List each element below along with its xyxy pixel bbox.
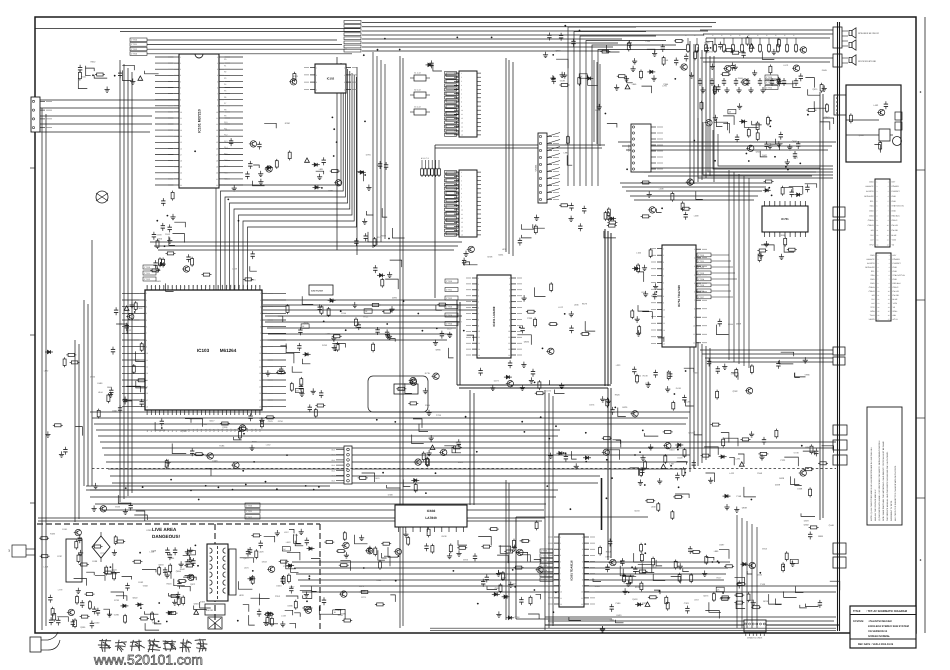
svg-text:(2) THE PARTS WITH MARK 4 OF S: (2) THE PARTS WITH MARK 4 OF SPECIFIED F… xyxy=(878,440,881,521)
svg-text:CT705: CT705 xyxy=(446,323,453,326)
svg-text:CRB B: CRB B xyxy=(869,286,876,289)
svg-text:WITH SAME PART NBR. THE IMPORT: WITH SAME PART NBR. THE IMPORTANT 4 AND … xyxy=(882,441,885,521)
svg-text:5: 5 xyxy=(461,88,462,91)
svg-text:D486: D486 xyxy=(97,382,103,385)
svg-text:V23: V23 xyxy=(242,285,245,288)
svg-text:R223: R223 xyxy=(167,582,173,585)
svg-text:2: 2 xyxy=(560,542,561,545)
svg-text:RED BLK: RED BLK xyxy=(893,282,902,285)
svg-text:3: 3 xyxy=(316,81,317,84)
svg-text:Q716: Q716 xyxy=(688,432,694,435)
svg-text:C550: C550 xyxy=(143,585,149,588)
svg-text:13: 13 xyxy=(216,129,218,132)
svg-text:R141: R141 xyxy=(642,291,648,294)
svg-text:TV-IN: TV-IN xyxy=(870,314,875,317)
svg-text:PW RD: PW RD xyxy=(892,229,899,232)
svg-text:C158: C158 xyxy=(736,495,742,498)
svg-text:Q855: Q855 xyxy=(740,51,746,54)
svg-text:CT702: CT702 xyxy=(131,48,138,51)
svg-text:SPILL: SPILL xyxy=(893,310,898,313)
svg-text:Q307: Q307 xyxy=(112,409,118,412)
svg-text:19: 19 xyxy=(216,166,218,169)
svg-text:6: 6 xyxy=(180,86,181,89)
svg-text:C799: C799 xyxy=(436,414,442,417)
svg-text:R185: R185 xyxy=(219,444,225,447)
svg-text:P8: P8 xyxy=(224,108,226,111)
svg-text:4: 4 xyxy=(509,295,510,298)
svg-text:CT703: CT703 xyxy=(131,52,138,55)
svg-text:GND: GND xyxy=(870,282,875,285)
svg-text:GND: GND xyxy=(870,254,875,257)
svg-text:C675: C675 xyxy=(268,420,274,423)
svg-text:1: 1 xyxy=(217,56,218,59)
svg-text:16: 16 xyxy=(259,392,261,395)
svg-text:A18: A18 xyxy=(221,429,224,432)
svg-text:DEGAUSS: DEGAUSS xyxy=(865,266,875,269)
svg-text:Y-CB: Y-CB xyxy=(892,239,897,242)
svg-text:LA7840: LA7840 xyxy=(425,516,437,520)
svg-text:2: 2 xyxy=(582,542,583,545)
svg-text:D269: D269 xyxy=(146,529,152,532)
svg-text:14: 14 xyxy=(461,126,463,129)
svg-text:VIDEO: VIDEO xyxy=(869,318,875,321)
svg-text:5: 5 xyxy=(217,80,218,83)
svg-text:10: 10 xyxy=(478,330,480,333)
svg-text:D275: D275 xyxy=(589,404,595,407)
svg-text:14: 14 xyxy=(259,379,261,382)
svg-text:5: 5 xyxy=(560,560,561,563)
svg-text:P14: P14 xyxy=(224,146,227,149)
svg-text:16: 16 xyxy=(146,392,148,395)
svg-text:8: 8 xyxy=(260,339,261,342)
svg-text:Q154: Q154 xyxy=(757,574,763,577)
svg-text:9: 9 xyxy=(180,105,181,108)
svg-text:21: 21 xyxy=(180,178,182,181)
svg-text:2: 2 xyxy=(146,299,147,302)
svg-text:A20: A20 xyxy=(230,429,233,432)
svg-text:14: 14 xyxy=(180,135,182,138)
svg-text:4: 4 xyxy=(461,84,462,87)
svg-text:3: 3 xyxy=(694,265,695,268)
svg-text:DIFFERENT TV SETS.: DIFFERENT TV SETS. xyxy=(890,500,893,521)
svg-text:1: 1 xyxy=(478,277,479,280)
svg-text:A27: A27 xyxy=(259,429,262,432)
svg-text:1: 1 xyxy=(344,67,345,70)
svg-text:Q689: Q689 xyxy=(736,323,742,326)
svg-text:CT700: CT700 xyxy=(131,39,138,42)
svg-text:4: 4 xyxy=(344,88,345,91)
svg-text:12: 12 xyxy=(693,342,695,345)
svg-text:16: 16 xyxy=(180,147,182,150)
svg-text:2: 2 xyxy=(180,62,181,65)
svg-text:D349: D349 xyxy=(501,576,507,579)
svg-text:C813: C813 xyxy=(762,547,768,550)
svg-text:10: 10 xyxy=(581,591,583,594)
svg-text:D513: D513 xyxy=(670,449,676,452)
svg-text:ABL: ABL xyxy=(893,314,897,317)
svg-text:Q407: Q407 xyxy=(762,154,768,157)
svg-text:Q709: Q709 xyxy=(100,552,106,555)
svg-text:D460: D460 xyxy=(94,621,100,624)
svg-text:11: 11 xyxy=(180,117,182,120)
svg-text:Q448: Q448 xyxy=(829,524,835,527)
svg-text:8: 8 xyxy=(146,339,147,342)
svg-text:8: 8 xyxy=(509,318,510,321)
svg-text:7: 7 xyxy=(146,332,147,335)
svg-text:C671: C671 xyxy=(359,585,365,588)
svg-text:D646: D646 xyxy=(90,376,96,379)
svg-text:CT702: CT702 xyxy=(246,516,253,519)
svg-text:D697: D697 xyxy=(719,543,725,546)
svg-text:R198: R198 xyxy=(92,560,98,563)
svg-text:4: 4 xyxy=(663,268,664,271)
svg-text:D127: D127 xyxy=(793,157,799,160)
svg-text:3: 3 xyxy=(217,68,218,71)
svg-text:3: 3 xyxy=(663,261,664,264)
svg-text:1: 1 xyxy=(582,536,583,539)
svg-text:P19: P19 xyxy=(224,178,227,181)
svg-text:13: 13 xyxy=(508,348,510,351)
svg-text:4: 4 xyxy=(180,74,181,77)
svg-text:C749: C749 xyxy=(794,452,800,455)
svg-text:A11: A11 xyxy=(192,429,195,432)
svg-text:6: 6 xyxy=(461,192,462,195)
svg-text:P-RESET: P-RESET xyxy=(893,262,902,265)
svg-text:THE SERVICE MANUAL. AND THE PA: THE SERVICE MANUAL. AND THE PARTS SHOULD… xyxy=(886,451,889,521)
svg-text:D563: D563 xyxy=(549,622,555,625)
svg-text:V6: V6 xyxy=(171,286,174,288)
svg-text:V9: V9 xyxy=(184,286,187,288)
svg-text:Q748: Q748 xyxy=(487,256,493,259)
svg-text:V13: V13 xyxy=(200,285,203,288)
svg-text:10: 10 xyxy=(693,325,695,328)
svg-text:C286: C286 xyxy=(114,614,120,617)
svg-text:2: 2 xyxy=(694,257,695,260)
svg-text:2: 2 xyxy=(509,283,510,286)
svg-text:V15: V15 xyxy=(209,285,212,288)
svg-text:REF DATE : VER-4 2004.03.05: REF DATE : VER-4 2004.03.05 xyxy=(858,643,894,646)
svg-text:IC801 TDA9116: IC801 TDA9116 xyxy=(570,560,574,581)
svg-text:15: 15 xyxy=(663,343,665,346)
svg-text:R836: R836 xyxy=(456,442,462,445)
svg-text:GND: GND xyxy=(893,278,898,281)
svg-text:10: 10 xyxy=(560,591,562,594)
svg-text:UNMUTE: UNMUTE xyxy=(866,258,875,261)
svg-text:D786: D786 xyxy=(322,344,328,347)
svg-text:A14: A14 xyxy=(204,429,207,432)
svg-text:Q130: Q130 xyxy=(634,510,640,513)
svg-text:8: 8 xyxy=(663,295,664,298)
svg-text:6: 6 xyxy=(260,326,261,329)
svg-text:2: 2 xyxy=(478,283,479,286)
svg-text:CT701: CT701 xyxy=(131,43,138,46)
svg-text:R625: R625 xyxy=(615,393,621,396)
svg-text:7: 7 xyxy=(560,572,561,575)
svg-text:D419: D419 xyxy=(676,387,682,390)
svg-text:Q270: Q270 xyxy=(182,430,188,433)
svg-text:2: 2 xyxy=(217,62,218,65)
svg-text:C539: C539 xyxy=(560,80,566,83)
svg-text:18: 18 xyxy=(146,406,148,409)
svg-text:1: 1 xyxy=(146,292,147,295)
svg-text:Q396: Q396 xyxy=(222,426,228,429)
svg-text:: TFT-AV SCHEMATIC DIAGRAM: : TFT-AV SCHEMATIC DIAGRAM xyxy=(866,610,908,613)
svg-text:C189: C189 xyxy=(704,41,710,44)
svg-text:IC301 LM1269: IC301 LM1269 xyxy=(492,306,496,326)
svg-text:7: 7 xyxy=(663,288,664,291)
svg-text:5: 5 xyxy=(180,80,181,83)
svg-text:BLUE: BLUE xyxy=(893,298,899,301)
svg-text:4: 4 xyxy=(582,554,583,557)
svg-text:5: 5 xyxy=(582,560,583,563)
svg-text:IC103: IC103 xyxy=(197,348,210,353)
svg-text:TITLE: TITLE xyxy=(853,610,861,613)
svg-text:Q339: Q339 xyxy=(775,484,781,487)
svg-text:X1 4.43: X1 4.43 xyxy=(414,72,421,75)
svg-text:5: 5 xyxy=(694,282,695,285)
svg-text:R506: R506 xyxy=(781,234,787,237)
svg-text:GND: GND xyxy=(893,270,898,273)
svg-text:Q826: Q826 xyxy=(524,341,530,344)
svg-text:P10: P10 xyxy=(224,121,227,124)
svg-text:C873: C873 xyxy=(463,558,469,561)
svg-text:10: 10 xyxy=(461,109,463,112)
svg-text:RED BLK: RED BLK xyxy=(892,214,901,217)
svg-text:Q530: Q530 xyxy=(158,564,164,567)
svg-text:P4: P4 xyxy=(224,83,226,86)
svg-text:NOTE: (1) ALL CAPACITORS ARE I: NOTE: (1) ALL CAPACITORS ARE IN UF. ALL … xyxy=(870,446,873,521)
svg-text:R721: R721 xyxy=(363,316,369,319)
svg-text:CN601: CN601 xyxy=(535,164,538,172)
svg-text:R642: R642 xyxy=(91,61,97,64)
svg-text:Q895: Q895 xyxy=(436,348,442,351)
svg-text:A15: A15 xyxy=(209,429,212,432)
svg-text:C483: C483 xyxy=(200,601,206,604)
svg-text:W RSTR: W RSTR xyxy=(867,262,875,265)
svg-text:D565: D565 xyxy=(822,69,828,72)
svg-text:6: 6 xyxy=(582,566,583,569)
svg-text:GND: GND xyxy=(892,200,897,203)
svg-text:13: 13 xyxy=(663,329,665,332)
svg-text:CT704: CT704 xyxy=(446,314,453,317)
svg-text:P6: P6 xyxy=(224,96,226,99)
svg-text:C486: C486 xyxy=(615,602,621,605)
svg-text:V7: V7 xyxy=(175,286,178,288)
svg-text:R390: R390 xyxy=(285,122,291,125)
svg-text:R165: R165 xyxy=(425,404,431,407)
svg-text:7: 7 xyxy=(582,572,583,575)
svg-text:SCL: SCL xyxy=(871,270,875,273)
svg-text:Q670: Q670 xyxy=(259,417,265,420)
svg-text:R643: R643 xyxy=(805,446,811,449)
svg-text:BLUE: BLUE xyxy=(892,234,898,237)
svg-text:6: 6 xyxy=(217,86,218,89)
svg-text:X3 4.43: X3 4.43 xyxy=(414,106,421,109)
svg-text:12: 12 xyxy=(259,366,261,369)
svg-text:POWER: POWER xyxy=(893,258,901,261)
svg-text:V16: V16 xyxy=(213,285,216,288)
svg-text:STBY/VCC-5V: STBY/VCC-5V xyxy=(893,274,906,277)
svg-text:2: 2 xyxy=(344,74,345,77)
svg-text:7: 7 xyxy=(217,93,218,96)
svg-text:6: 6 xyxy=(560,566,561,569)
svg-text:8: 8 xyxy=(478,318,479,321)
svg-text:R542: R542 xyxy=(180,568,186,571)
svg-text:18: 18 xyxy=(180,160,182,163)
svg-text:Q601: Q601 xyxy=(756,150,762,153)
svg-text:D285: D285 xyxy=(392,297,398,300)
svg-text:11: 11 xyxy=(216,117,218,120)
svg-text:CT702: CT702 xyxy=(698,266,705,269)
svg-text:16: 16 xyxy=(216,147,218,150)
svg-text:V18: V18 xyxy=(221,285,224,288)
svg-text:5: 5 xyxy=(663,275,664,278)
svg-text:A0: A0 xyxy=(146,430,149,432)
svg-text:D273: D273 xyxy=(494,379,500,382)
svg-text:DEGAUSS: DEGAUSS xyxy=(864,195,874,198)
svg-text:P18: P18 xyxy=(224,171,227,174)
svg-text:12: 12 xyxy=(180,123,182,126)
svg-text:A25: A25 xyxy=(250,429,253,432)
svg-text:8: 8 xyxy=(582,579,583,582)
svg-text:6: 6 xyxy=(146,326,147,329)
svg-text:8: 8 xyxy=(560,579,561,582)
svg-text:Q273: Q273 xyxy=(703,594,709,597)
svg-text:12: 12 xyxy=(581,603,583,606)
svg-text:D120: D120 xyxy=(678,457,684,460)
svg-text:3: 3 xyxy=(180,68,181,71)
svg-text:R744: R744 xyxy=(341,312,347,315)
svg-text:9: 9 xyxy=(478,324,479,327)
svg-text:C234: C234 xyxy=(293,534,299,537)
svg-text:GND: GND xyxy=(892,195,897,198)
svg-text:A21: A21 xyxy=(234,429,237,432)
svg-text:AND ALL THE VOLTAGE ARE IN V.: AND ALL THE VOLTAGE ARE IN V. xyxy=(874,489,877,521)
svg-text:2: 2 xyxy=(260,299,261,302)
svg-text:11: 11 xyxy=(663,315,665,318)
svg-text:A17: A17 xyxy=(217,429,220,432)
svg-text:9: 9 xyxy=(509,324,510,327)
svg-text:CT702: CT702 xyxy=(144,278,151,281)
svg-text:D586: D586 xyxy=(595,109,601,112)
svg-text:R528: R528 xyxy=(693,372,699,375)
svg-text:1: 1 xyxy=(461,171,462,174)
svg-text:P0: P0 xyxy=(224,58,226,61)
svg-text:Q622: Q622 xyxy=(133,596,139,599)
svg-text:V17: V17 xyxy=(217,285,220,288)
svg-text:R436: R436 xyxy=(442,535,448,538)
svg-text:CRB R: CRB R xyxy=(869,290,876,293)
svg-text:14: 14 xyxy=(478,354,480,357)
svg-text:7: 7 xyxy=(461,196,462,199)
svg-text:10: 10 xyxy=(259,352,261,355)
svg-text:6: 6 xyxy=(694,291,695,294)
svg-text:7: 7 xyxy=(461,97,462,100)
svg-text:C297: C297 xyxy=(457,321,463,324)
svg-text:12: 12 xyxy=(508,342,510,345)
svg-text:A24: A24 xyxy=(246,429,249,432)
svg-text:15: 15 xyxy=(216,141,218,144)
svg-text:15: 15 xyxy=(461,230,463,233)
svg-text:R163: R163 xyxy=(138,581,144,584)
svg-text:CT705: CT705 xyxy=(541,574,548,577)
svg-text:3: 3 xyxy=(461,179,462,182)
svg-text:21: 21 xyxy=(216,178,218,181)
svg-text:6: 6 xyxy=(478,307,479,310)
svg-text:DANGEOUS!: DANGEOUS! xyxy=(152,534,181,539)
svg-text:13: 13 xyxy=(259,372,261,375)
svg-text:C363: C363 xyxy=(684,602,690,605)
svg-text:CT701: CT701 xyxy=(246,510,253,513)
svg-text:16: 16 xyxy=(461,234,463,237)
svg-text:CT700: CT700 xyxy=(246,504,253,507)
svg-text:13: 13 xyxy=(180,129,182,132)
svg-text:R626: R626 xyxy=(622,406,628,409)
svg-text:19: 19 xyxy=(180,166,182,169)
svg-text:GND: GND xyxy=(869,214,874,217)
svg-text:D576: D576 xyxy=(652,566,658,569)
svg-text:12: 12 xyxy=(560,603,562,606)
svg-text:7: 7 xyxy=(694,299,695,302)
svg-text:R736: R736 xyxy=(114,599,120,602)
svg-text:7: 7 xyxy=(260,332,261,335)
svg-text:V24: V24 xyxy=(246,285,249,288)
svg-text:7: 7 xyxy=(180,93,181,96)
svg-text:3: 3 xyxy=(260,306,261,309)
svg-text:D243: D243 xyxy=(276,584,282,587)
svg-text:D587: D587 xyxy=(804,520,810,523)
svg-text:SYSTEM: SYSTEM xyxy=(853,620,863,623)
svg-text:CT706: CT706 xyxy=(541,578,548,581)
svg-text:9: 9 xyxy=(146,346,147,349)
svg-text:V14: V14 xyxy=(204,285,207,288)
svg-text:13: 13 xyxy=(146,372,148,375)
svg-text:8: 8 xyxy=(461,200,462,203)
svg-text:CT705: CT705 xyxy=(698,284,705,287)
svg-text:17: 17 xyxy=(259,399,261,402)
svg-text:C253: C253 xyxy=(275,595,281,598)
svg-text:IC602: IC602 xyxy=(427,509,436,513)
svg-text:3: 3 xyxy=(478,289,479,292)
svg-text:R478: R478 xyxy=(676,561,682,564)
svg-text:12: 12 xyxy=(216,123,218,126)
svg-text:GND: GND xyxy=(869,210,874,213)
svg-text:9: 9 xyxy=(694,316,695,319)
svg-text:17: 17 xyxy=(180,153,182,156)
svg-text:A12: A12 xyxy=(196,429,199,432)
svg-text:12: 12 xyxy=(478,342,480,345)
svg-text:: PAL/NTSC/SECAM: : PAL/NTSC/SECAM xyxy=(868,620,892,623)
svg-text:C606: C606 xyxy=(645,40,651,43)
svg-text:18: 18 xyxy=(216,160,218,163)
svg-text:P13: P13 xyxy=(224,140,227,143)
svg-text:AC: AC xyxy=(8,549,11,552)
svg-text:Q872: Q872 xyxy=(190,583,196,586)
svg-text:14: 14 xyxy=(216,135,218,138)
svg-text:R149: R149 xyxy=(643,375,649,378)
svg-text:4: 4 xyxy=(560,554,561,557)
svg-text:Q681: Q681 xyxy=(194,602,200,605)
svg-text:1: 1 xyxy=(663,247,664,250)
svg-text:Q815: Q815 xyxy=(859,134,865,137)
svg-text:6: 6 xyxy=(509,307,510,310)
svg-text:GND: GND xyxy=(870,278,875,281)
svg-text:C867: C867 xyxy=(290,585,296,588)
svg-text:10: 10 xyxy=(146,352,148,355)
svg-text:D338: D338 xyxy=(797,488,803,491)
svg-text:CT700: CT700 xyxy=(144,266,151,269)
svg-text:2: 2 xyxy=(461,175,462,178)
